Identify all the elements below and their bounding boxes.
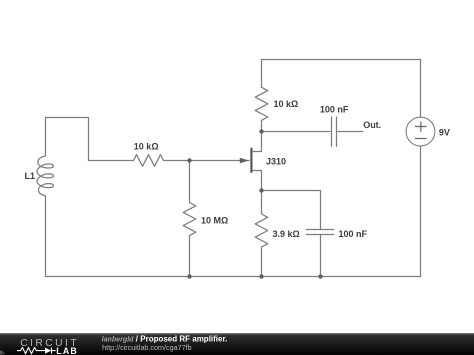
svg-text:10 MΩ: 10 MΩ	[201, 216, 228, 226]
svg-text:100 nF: 100 nF	[339, 229, 368, 239]
svg-text:J310: J310	[266, 157, 286, 167]
svg-text:3.9 kΩ: 3.9 kΩ	[273, 229, 300, 239]
svg-text:LAB: LAB	[56, 346, 78, 355]
svg-text:10 kΩ: 10 kΩ	[134, 142, 159, 152]
svg-text:http://circuitlab.com/cga77fb: http://circuitlab.com/cga77fb	[102, 343, 192, 352]
svg-text:Out.: Out.	[363, 120, 381, 130]
svg-text:100 nF: 100 nF	[320, 105, 349, 115]
svg-text:9V: 9V	[439, 128, 450, 138]
svg-text:10 kΩ: 10 kΩ	[274, 99, 299, 109]
svg-text:L1: L1	[25, 171, 36, 181]
